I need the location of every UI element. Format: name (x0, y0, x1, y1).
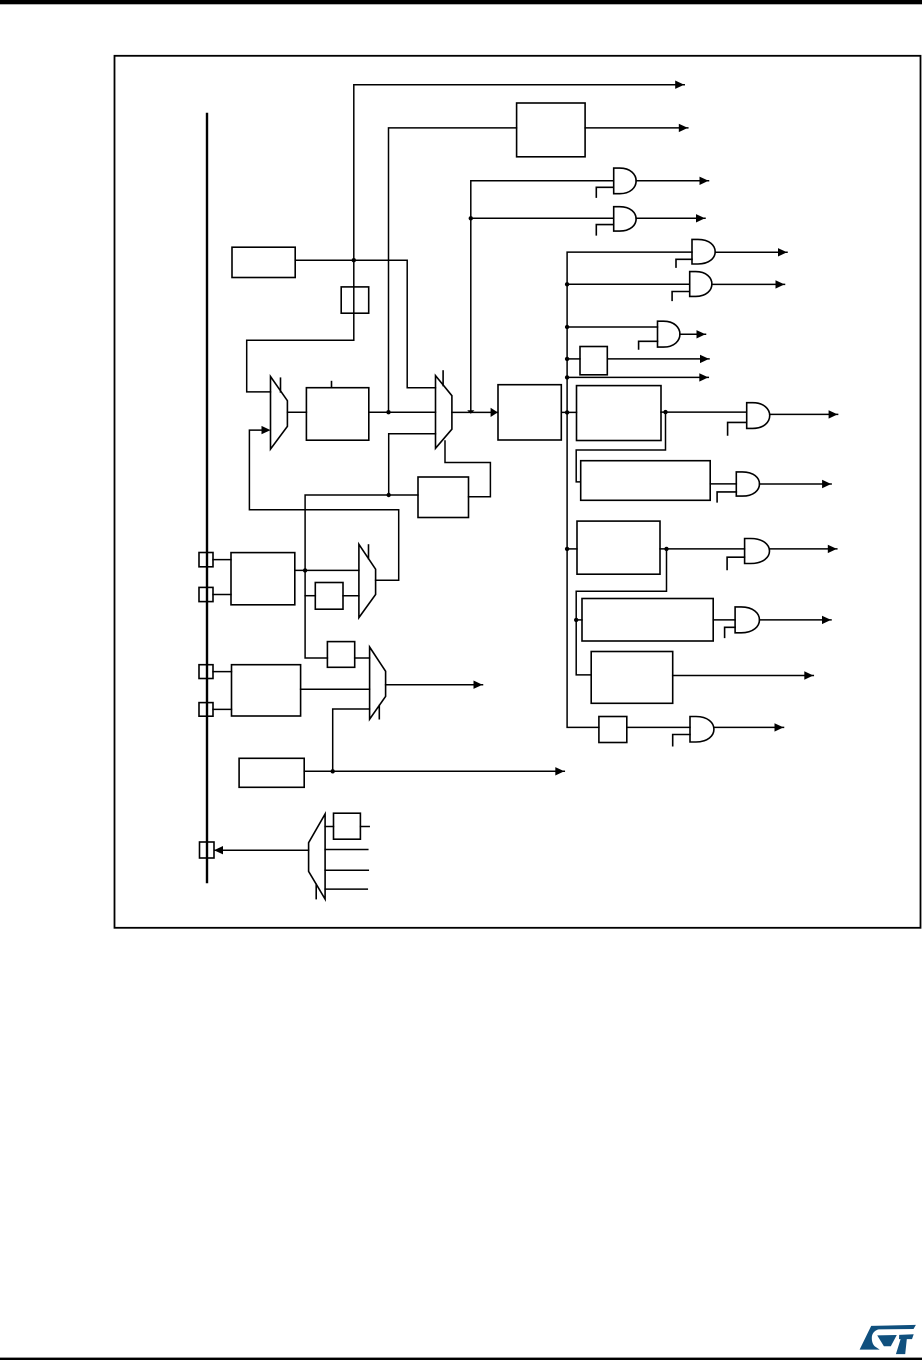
mux RTCSEL (370, 647, 386, 719)
junction TIM1 tap (574, 618, 578, 622)
select tick mux PLLXTPRE (368, 545, 370, 559)
wire HCLK to APB2 prescaler (567, 548, 577, 550)
wire SYSCLK up to gates A and B (471, 181, 614, 413)
wire LSI to RTCSEL mux (333, 709, 370, 771)
arrow gate I output (822, 480, 831, 488)
wire HSI /2 to PLLSRC mux (247, 260, 354, 392)
diagram frame (115, 56, 921, 928)
wire HCLK to FCLK arrow (567, 376, 708, 378)
wire gate A output (636, 180, 708, 182)
and-gate K (TIM1CLK enable) (735, 607, 759, 633)
enable elbow gate E (639, 341, 658, 349)
wire OSC32_IN pad stub (213, 671, 232, 673)
arrow gate J output (828, 545, 837, 553)
enable elbow gate D (672, 292, 690, 301)
box HSI RC oscillator (232, 247, 295, 277)
arrow gate E output (697, 330, 706, 338)
wire gate L output (714, 726, 784, 728)
wire gate J output (770, 548, 837, 550)
box CSS (418, 477, 469, 518)
mux MCO select (309, 814, 326, 899)
select tick mux RTCSEL (378, 706, 380, 719)
wire OSC_OUT pad stub (213, 594, 231, 596)
box /32 HSE-RTC divider (327, 642, 354, 668)
wire HSI output to SW mux (295, 260, 435, 388)
arrow gate K output (822, 616, 831, 624)
ST logo (860, 1325, 916, 1354)
wire APB1 to TIM234 multiplier (576, 412, 665, 482)
arrow gate H output (829, 410, 838, 418)
mux PLLSRC (271, 377, 288, 450)
enable elbow gate C (676, 259, 692, 267)
pad OSC32_OUT (LSE) (199, 703, 213, 717)
arrow gate B output (696, 214, 705, 222)
wire HSE vertical trunk (305, 495, 389, 658)
junction HCLK FCLK tap (565, 375, 569, 379)
box TIM1 multiplier (582, 599, 713, 642)
wire PLLSRC mux to PLL (287, 411, 306, 413)
wire HCLK to gate E (567, 326, 657, 328)
wire peripheral divider output (607, 358, 709, 360)
enable elbow gate A (596, 187, 613, 197)
and-gate L (SysTick enable) (690, 717, 714, 743)
box TIM234 multiplier (581, 461, 711, 501)
wire gate H output (770, 413, 838, 415)
arrow gate C output (778, 248, 787, 256)
footer rule (0, 1358, 922, 1360)
arrow SYSCLK into AHB prescaler (491, 408, 498, 417)
wire gate D output (712, 283, 785, 285)
pin tick on PLL box (331, 382, 333, 388)
pin bus line (206, 114, 208, 882)
box ADC prescaler (591, 652, 673, 704)
arrow FCLK output (699, 373, 708, 381)
enable elbow gate J (727, 557, 745, 569)
pad MCO (200, 842, 215, 858)
wire OSC32_OUT pad stub (213, 708, 232, 710)
junction HCLK main node (565, 410, 569, 414)
wire APB2 to TIM1 multiplier and ADC (576, 549, 666, 675)
wire TIM234 multiplier to gate I (710, 483, 736, 485)
wire RTCCLK output (386, 684, 483, 686)
junction HSE OSC output (303, 568, 307, 572)
wire gate I output (760, 483, 832, 485)
wire /8 divider to gate L (627, 726, 690, 728)
and-gate C (HCLK enable) (692, 239, 715, 264)
enable elbow gate K (725, 627, 736, 637)
wire HCLK distribution bus (567, 252, 692, 727)
wire CSS feedback loop (445, 441, 490, 497)
box /2 MCO PLL divider (334, 813, 361, 839)
select tick mux SW (442, 371, 444, 386)
arrow HSI system output (675, 81, 684, 89)
wire MCO mux input HSI stub (325, 869, 368, 871)
junction LSI node (331, 769, 335, 773)
wire MCO mux input PLL/2 (325, 826, 333, 828)
arrow gate D output (776, 280, 785, 288)
wire HSI to top output arrow (354, 85, 684, 261)
arrow gate A output (700, 177, 709, 185)
wire TIM1 multiplier to gate K (713, 619, 735, 621)
wire LSE output to RTCSEL mux (301, 688, 370, 690)
box APB2 prescaler (577, 521, 660, 574)
box peripheral clock divider (580, 347, 607, 375)
box LSI RC (239, 758, 304, 787)
wire HSE net to SW mux and CSS (389, 434, 436, 495)
junction HSI node (352, 258, 356, 262)
junction HCLK APB2 tap (565, 547, 569, 551)
wire gate E output (680, 333, 706, 335)
box PLLMUL (306, 388, 368, 441)
wire HSE to /2 PLLXTPRE divider (305, 595, 315, 597)
wire PLL output to SW mux (369, 411, 436, 413)
header bar (0, 0, 922, 4)
arrow gate L output (775, 723, 784, 731)
and-gate I (TIMxCLK enable) (736, 472, 759, 496)
junction PCLK1 node (663, 410, 667, 414)
arrow IWDG output (555, 767, 564, 775)
box /2 HSI divider (341, 287, 369, 313)
wire HCLK to peripheral divider (567, 358, 580, 360)
wire SYSCLK to AHB prescaler (452, 411, 498, 413)
arrow RTCCLK output (474, 681, 483, 689)
wire SYSCLK branch to gate B (471, 217, 614, 219)
arrow ADC output (804, 671, 813, 679)
and-gate J (PCLK2 enable) (745, 539, 770, 564)
wire /2 PLLXTPRE divider to mux (343, 595, 359, 597)
wire gate B output (636, 217, 705, 219)
wire AHB prescaler to APB1 prescaler (561, 411, 576, 413)
select tick mux MCO (315, 884, 317, 898)
and-gate D (HCLK enable 2) (690, 272, 712, 297)
arrow into PLLSRC mux (262, 426, 271, 434)
wire TIM1 multiplier input stub (576, 619, 582, 621)
arrow into MCO pad (214, 846, 223, 854)
wire HCLK to gate D (567, 283, 690, 285)
enable elbow gate L (673, 735, 690, 746)
and-gate A (PLLCLK enable) (614, 168, 636, 194)
junction PLLCLK node (386, 410, 390, 414)
select tick mux PLLSRC (280, 378, 282, 392)
pad OSC_IN (HSE) (199, 553, 213, 567)
wire APB2 output to gate J (660, 548, 745, 550)
junction SYSCLK gate B tap (469, 216, 473, 220)
arrow SYSCLK down-tick (467, 410, 474, 414)
box /2 PLLXTPRE divider (315, 583, 343, 610)
box HSE OSC (231, 553, 295, 605)
wire gate C output (715, 251, 787, 253)
wire OSC_IN pad stub (213, 559, 231, 561)
box /8 SysTick divider (599, 717, 627, 743)
junction HCLK divider tap (565, 357, 569, 361)
pad OSC_OUT (HSE) (199, 587, 213, 601)
wire ADC prescaler output (673, 675, 814, 677)
and-gate E (free running clock) (658, 321, 680, 347)
enable elbow gate I (717, 492, 736, 502)
junction HCLK gate E tap (565, 325, 569, 329)
wire MCO PLL/2 stub (360, 826, 369, 828)
wire LSI output to IWDG arrow (304, 770, 564, 772)
mux PLLXTPRE (359, 544, 376, 617)
box LSE OSC (232, 665, 301, 716)
box USB prescaler (517, 103, 586, 157)
junction HCLK gate D tap (565, 282, 569, 286)
mux SW (system clock) (436, 376, 452, 449)
junction HSE node (387, 493, 391, 497)
wire MCO mux input SYSCLK stub (325, 849, 368, 851)
wire HSE OSC output to PLLXTPRE mux (295, 569, 359, 571)
wire MCO mux to MCO pad (215, 849, 309, 851)
and-gate B (SYSCLK enable) (614, 207, 636, 231)
and-gate H (PCLK1 enable) (747, 403, 770, 429)
junction PCLK2 node (664, 547, 668, 551)
wire USB prescaler output (585, 127, 688, 129)
wire /32 divider to RTCSEL mux (355, 657, 370, 659)
wire PLLCLK to USB prescaler (389, 128, 517, 412)
enable elbow gate H (728, 422, 747, 435)
arrow USBCLK output (679, 124, 688, 132)
arrow peripheral divider output (700, 355, 709, 363)
wire PLLXTPRE mux to PLLSRC mux (249, 430, 398, 580)
box APB1 prescaler (577, 386, 662, 441)
wire MCO mux input HSE stub (325, 888, 367, 890)
wire gate K output (760, 619, 832, 621)
wire APB1 output to gate H (661, 411, 747, 413)
box AHB prescaler (498, 385, 561, 440)
enable elbow gate B (596, 225, 613, 235)
pad OSC32_IN (LSE) (199, 665, 213, 679)
